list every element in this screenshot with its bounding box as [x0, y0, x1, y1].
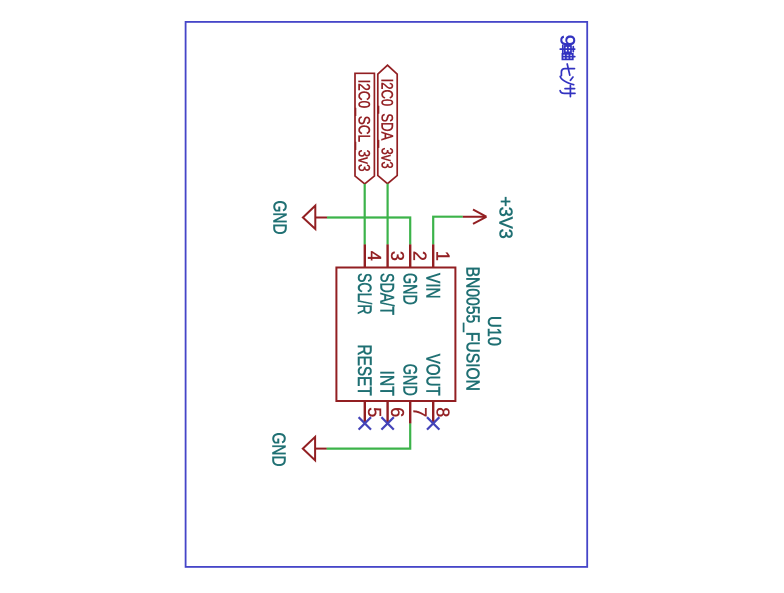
- pin 3 SDA/T: [376, 244, 407, 315]
- wire SCL label to pin 4: [364, 184, 366, 245]
- wire pin 7 to GND2: [327, 423, 411, 448]
- pin 8 VOUT: [421, 354, 452, 424]
- svg-text:BN0055_FUSION: BN0055_FUSION: [462, 267, 484, 391]
- no-connect pin 6: [381, 417, 393, 429]
- svg-text:2: 2: [409, 251, 429, 261]
- svg-text:GND: GND: [270, 201, 291, 235]
- svg-text:3: 3: [387, 251, 407, 261]
- svg-text:1: 1: [432, 251, 452, 261]
- svg-text:8: 8: [432, 407, 452, 417]
- pin 4 SCL/R: [353, 244, 384, 314]
- no-connect pin 5: [359, 417, 371, 429]
- power symbol +3V3: [463, 196, 517, 239]
- hierarchical label I2C0_SCL_3v3: [355, 73, 375, 184]
- svg-text:5: 5: [364, 407, 384, 417]
- svg-text:U10: U10: [484, 316, 505, 346]
- svg-text:4: 4: [364, 251, 384, 261]
- power symbol GND (upper, pin 2 net): [270, 201, 328, 235]
- wire SDA label to pin 3: [387, 184, 389, 245]
- wire GND1 to pin 2: [327, 218, 410, 245]
- value BN0055_FUSION: [462, 267, 484, 391]
- svg-text:7: 7: [409, 407, 429, 417]
- svg-text:VOUT: VOUT: [421, 354, 442, 396]
- pin 2 GND: [398, 244, 429, 304]
- svg-text:+3V3: +3V3: [496, 196, 517, 239]
- svg-text:I2C0_SDA_3v3: I2C0_SDA_3v3: [377, 79, 396, 169]
- sheet name 9軸センサ: [556, 35, 579, 97]
- power symbol GND (lower, pin 7 net): [269, 433, 327, 467]
- svg-text:I2C0_SCL_3v3: I2C0_SCL_3v3: [355, 80, 374, 172]
- IC U10 body BN0055_FUSION: [336, 268, 455, 402]
- svg-text:GND: GND: [398, 364, 419, 396]
- svg-text:RESET: RESET: [353, 345, 374, 397]
- svg-text:SDA/T: SDA/T: [376, 273, 397, 315]
- pin 6 INT: [376, 371, 407, 424]
- pin 1 VIN: [421, 244, 452, 298]
- pin 7 GND: [398, 364, 429, 424]
- svg-text:GND: GND: [398, 273, 419, 305]
- wire +3V3 to pin 1: [433, 217, 463, 245]
- svg-text:GND: GND: [269, 433, 290, 467]
- sheet border: [186, 22, 588, 567]
- pin 5 RESET: [353, 345, 384, 424]
- svg-text:INT: INT: [376, 371, 397, 397]
- hierarchical label I2C0_SDA_3v3: [377, 65, 397, 184]
- svg-text:VIN: VIN: [421, 273, 442, 299]
- svg-text:SCL/R: SCL/R: [353, 273, 374, 315]
- no-connect pin 8: [427, 417, 439, 429]
- reference U10: [484, 316, 505, 346]
- svg-text:9: 9: [556, 35, 579, 47]
- svg-text:6: 6: [387, 407, 407, 417]
